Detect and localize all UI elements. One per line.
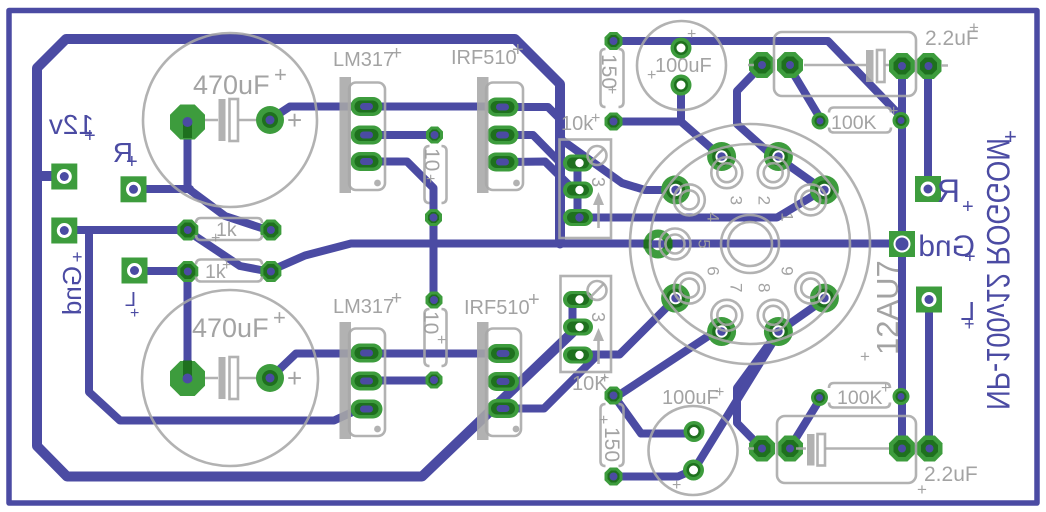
svg-text:+: + [426, 171, 435, 188]
pad 470uF C2 negative [256, 364, 284, 392]
svg-text:10k: 10k [561, 113, 594, 135]
pad 100K R8 left [811, 389, 828, 406]
capacitor C1 470uF silkscreen [143, 33, 317, 207]
pad IRF510 Q1 pin3 [487, 153, 519, 172]
svg-text:+: + [1004, 124, 1017, 149]
pad 100K R7 left [812, 113, 829, 130]
tube V1 pin8 ring silkscreen [758, 300, 789, 331]
wire: long right vertical 100K R7 right pad through Gnd to 2.2uF C6 octagon [898, 122, 906, 446]
pad L output [916, 287, 942, 313]
pad 150R R5 top [605, 32, 623, 50]
pad R output [915, 176, 941, 202]
svg-text:3: 3 [588, 312, 608, 322]
pad 10R R4 top [426, 292, 443, 309]
wire: IRF510 Q1 pin2 to trimmer VR1 pin1 [506, 135, 575, 163]
resistor R8 100K silkscreen [829, 380, 890, 409]
svg-text:150: 150 [597, 54, 620, 89]
svg-text:+: + [964, 246, 976, 268]
svg-text:4: 4 [703, 212, 722, 221]
svg-text:+: + [969, 18, 979, 37]
wire: 100K R8 left pad to 2.2uF C6 inner octagon [791, 400, 820, 446]
pad trimmer VR1 pin1 [563, 155, 593, 172]
pad 100uF C4 positive [684, 421, 705, 442]
svg-text:3: 3 [588, 177, 608, 187]
tube V1 pin4 ring silkscreen [674, 184, 705, 215]
wire: right octagon up...down to R output pad [924, 68, 932, 186]
wire: LM317 U1 pin3 to 10R R3 bottom pad [370, 162, 434, 215]
pad trimmer VR2 pin1 [563, 291, 593, 308]
svg-text:7: 7 [726, 283, 745, 292]
LAYER: silkscreen [142, 18, 979, 499]
svg-text:3: 3 [726, 196, 745, 205]
svg-text:6: 6 [703, 266, 722, 275]
wire: L input pad to 1k R2 left pad [140, 267, 184, 275]
svg-text:+: + [715, 384, 724, 401]
trimmer VR2 10K silkscreen [561, 276, 612, 395]
svg-text:+: + [603, 85, 620, 94]
pad 150R R5 bottom [605, 113, 623, 131]
svg-text:+: + [599, 412, 608, 429]
node R output label (mirrored copper text) [937, 173, 974, 218]
resistor R1 1k silkscreen [196, 218, 262, 247]
pad tube V1 pin1 [810, 175, 839, 204]
node Gnd input label (mirrored copper text) [57, 247, 87, 315]
tube V1 pin5 ring silkscreen [660, 229, 691, 260]
pad 1k R2 right [260, 261, 281, 282]
wire: stub from ground loop to +12v pad [37, 171, 56, 181]
wire: LM317 U2 pin2 to 10R R4 bottom pad [370, 377, 431, 385]
pad 1k R2 left [177, 261, 198, 282]
pad LM317 U2 pin1 [351, 344, 383, 363]
pad tube V1 pin6 [661, 284, 690, 313]
pad 2.2uF C6 out octagon [749, 436, 775, 462]
pad 100uF C3 negative [671, 75, 692, 96]
tube V1 value label 12AU7 [860, 260, 905, 366]
wire: 2.2uF C5 octagon vertical to 100K R7 right pad [898, 68, 906, 118]
svg-text:LM317: LM317 [333, 49, 394, 71]
pad tube V1 pin3 [707, 142, 736, 171]
svg-text:+: + [211, 230, 220, 247]
svg-text:100uF: 100uF [662, 387, 719, 409]
svg-text:+: + [528, 289, 540, 311]
svg-text:+: + [287, 363, 302, 393]
wire: junction diagonal to tube V1 pin3 [682, 123, 719, 156]
resistor R6 150 silkscreen [599, 404, 624, 466]
pad trimmer VR2 pin3 [563, 347, 593, 364]
pad L input [122, 258, 148, 284]
wire: 1k R2 left pad down to 470uF C2 octagon [184, 273, 192, 375]
capacitor C3 100uF silkscreen [637, 21, 726, 110]
pad tube V1 pin9 [810, 284, 839, 313]
pad 470uF C1 negative [256, 106, 284, 134]
pad tube V1 pin5 [644, 230, 673, 259]
svg-text:+: + [391, 43, 402, 64]
resistor R3 10 silkscreen [420, 146, 447, 203]
svg-text:NP-100v12 ROGGOM: NP-100v12 ROGGOM [980, 138, 1016, 410]
wire: IRF510 Q1 pin1 over to tube V1 pin4 [506, 107, 672, 190]
tube V1 pin3 ring silkscreen [711, 157, 742, 188]
svg-text:LM317: LM317 [333, 296, 394, 318]
pad 470uF C2 positive [170, 361, 205, 397]
resistor R4 10 silkscreen [419, 309, 447, 366]
wire: IRF510 Q2 pin3 to trimmer VR2 pin3 rail [508, 356, 597, 409]
trimmer VR1 10k silkscreen [560, 110, 612, 238]
wire: 470uF C1 positive octagon down to node A [184, 126, 192, 189]
pad tube V1 pin4 [661, 175, 690, 204]
svg-text:10: 10 [419, 311, 442, 334]
pad trimmer VR1 pin2 [563, 182, 593, 199]
svg-text:100K: 100K [831, 112, 877, 134]
svg-text:5: 5 [695, 239, 714, 248]
svg-text:100K: 100K [837, 387, 883, 409]
node R input label (mirrored copper text) [113, 137, 138, 173]
svg-text:+: + [889, 103, 898, 120]
pad LM317 U2 pin3 [351, 400, 383, 419]
wire: tube V1 pin2 to pin1 [779, 159, 822, 190]
wire: tube V1 pin8 to pin9 [780, 301, 822, 331]
svg-text:+: + [391, 288, 402, 309]
tube V1 pin2 ring silkscreen [758, 157, 789, 188]
svg-text:8: 8 [755, 283, 774, 292]
svg-text:+: + [126, 151, 138, 173]
pad 150R R6 top [605, 387, 623, 405]
pad 10R R3 bottom [425, 209, 442, 226]
svg-text:12AU7: 12AU7 [870, 260, 905, 355]
pad 2.2uF C6 right octagon A [889, 436, 915, 462]
LAYER: copper text [49, 109, 1017, 410]
pad 150R R6 bottom [605, 468, 623, 486]
svg-text:+: + [600, 370, 609, 387]
wire: 2.2uF C5 inner octagon to 100K R7 left pad [790, 68, 820, 118]
pad trimmer VR1 pin3 [563, 209, 593, 226]
svg-text:+: + [512, 39, 524, 61]
svg-text:+: + [881, 380, 890, 397]
pad R input [121, 176, 147, 202]
transistor Q1 IRF510 package silkscreen [451, 39, 524, 193]
pad tube V1 pin2 [764, 142, 793, 171]
pad IRF510 Q2 pin2 [487, 372, 519, 391]
pad 100uF C3 positive [671, 38, 692, 59]
pad 100K R7 right [893, 112, 910, 129]
svg-text:9: 9 [778, 266, 797, 275]
wire: trimmer VR2 pads 1-2 link [569, 301, 577, 326]
wire: tube V1 pin7 down to 150R R6 top pad [618, 331, 717, 396]
svg-text:IRF510: IRF510 [464, 297, 530, 319]
pad tube V1 pin7 [707, 317, 736, 346]
transistor Q2 IRF510 package silkscreen [464, 289, 540, 440]
svg-text:+: + [860, 347, 870, 366]
pad 2.2uF C5 right octagon A [889, 53, 915, 79]
pad IRF510 Q1 pin1 [487, 98, 519, 117]
tube V1 pin6 ring silkscreen [674, 273, 705, 304]
svg-text:R: R [937, 173, 960, 209]
tube V1 pin1 ring silkscreen [795, 184, 826, 215]
capacitor C6 2.2uF silkscreen [748, 416, 978, 499]
pad LM317 U1 pin1 [351, 97, 383, 116]
wire: long mid rail from 1k R2 right pad to Gnd pad right [272, 244, 898, 271]
pad 1k R1 right [260, 220, 281, 241]
svg-text:+: + [130, 305, 139, 322]
wire: 150R R6 top pad to 100uF C4 positive pad [616, 398, 693, 434]
svg-text:+: + [687, 26, 696, 43]
wire: 470uF C2 + pad to LM317 U2 pin1 and IRF510 Q2 pin1 [272, 354, 500, 377]
svg-text:+: + [917, 480, 927, 499]
resistor R7 100K silkscreen [829, 103, 898, 134]
pad 2.2uF C6 in octagon [777, 436, 803, 462]
svg-text:+: + [222, 257, 231, 274]
wire: trimmer VR1 pin3 to tube V1 pin1 [580, 191, 822, 218]
tube socket V1 12AU7 silkscreen [630, 124, 870, 364]
pad LM317 U1 pin2 [351, 126, 383, 145]
wire: 10R R3 bottom pad down to 10R R4 top pad [430, 219, 438, 298]
svg-text:+: + [84, 125, 96, 147]
svg-text:470uF: 470uF [192, 313, 269, 343]
board title NP-100v12 ROGGOM (mirrored copper text) [980, 124, 1017, 410]
op-amp U1 LM317 package silkscreen [333, 43, 402, 193]
tube V1 pin9 ring silkscreen [795, 273, 826, 304]
wire: 1k R1 left pad diagonal to 1k R2 right pad [189, 232, 266, 271]
svg-text:+: + [274, 62, 287, 87]
pad 2.2uF C6 right octagon B [917, 436, 943, 462]
wire: bridge between 2.2uF C5 right octagons [902, 62, 928, 70]
wire: tube V1 pin6 to trimmer VR2 pin3 [580, 300, 674, 355]
LAYER: pads [51, 32, 942, 486]
wire: node A diagonal to 1k R1 right pad [190, 190, 266, 230]
pad 10R R3 top [426, 127, 443, 144]
wire: Gnd pad to 1k R1 left pad [66, 226, 184, 234]
pad +12v input [51, 164, 77, 190]
pad 2.2uF C5 out octagon [749, 52, 775, 78]
wire: 150R R5 bottom pad to junction under 100uF C3 [617, 118, 681, 126]
pad 1k R1 left [177, 220, 198, 241]
pad 470uF C1 positive [170, 105, 205, 140]
pad trimmer VR2 pin2 [563, 319, 593, 336]
svg-text:IRF510: IRF510 [451, 47, 517, 69]
pad LM317 U2 pin2 [351, 372, 383, 391]
svg-text:+: + [287, 105, 302, 135]
pad 2.2uF C5 right octagon B [916, 53, 942, 79]
wire: L output pad down to 2.2uF C6 octagon [925, 302, 933, 446]
wire: tube V1 pin8 down to 100uF C4 negative pad [695, 337, 777, 469]
pad 100K R8 right [893, 388, 910, 405]
wire: junction up to 100uF C3 negative pad [677, 87, 685, 122]
wire: 470uF C1 + pad to LM317 U1 pin1 and IRF510 Q1 pin1 [271, 107, 500, 120]
capacitor C2 470uF silkscreen [142, 290, 318, 466]
svg-text:10: 10 [420, 148, 443, 171]
wire: LM317 U1 pin2 to 10R R3 top pad [370, 131, 432, 139]
svg-text:+: + [672, 477, 681, 494]
svg-text:2.2uF: 2.2uF [924, 463, 978, 486]
svg-text:470uF: 470uF [193, 70, 270, 100]
pad IRF510 Q2 pin1 [487, 344, 519, 363]
node L input label (mirrored copper text) [125, 289, 139, 322]
capacitor C4 100uF silkscreen [649, 384, 738, 495]
svg-text:+: + [273, 305, 286, 330]
svg-text:+: + [437, 332, 446, 349]
tube V1 pin7 ring silkscreen [711, 300, 742, 331]
svg-text:Gnd: Gnd [57, 266, 87, 315]
svg-text:100uF: 100uF [655, 55, 712, 77]
wire: trimmer VR1 wiper bus pads 1-2-3 [574, 165, 582, 216]
node Gnd output label (mirrored copper text) [918, 230, 975, 268]
node +12v label (mirrored copper text) [49, 109, 96, 147]
wire: branch down from Gnd trace at x=89 [89, 231, 365, 421]
pad 10R R4 bottom [426, 372, 443, 389]
pad Gnd output [889, 231, 915, 257]
resistor R2 1k silkscreen [196, 257, 262, 283]
svg-text:+: + [964, 314, 975, 334]
pad tube V1 pin8 [764, 317, 793, 346]
pad 100uF C4 negative [683, 460, 704, 481]
svg-text:1: 1 [778, 212, 797, 221]
wire: 2.2uF C6 outer octagon up to tube V1 pin8 [737, 336, 775, 447]
svg-text:+: + [962, 196, 974, 218]
capacitor C5 2.2uF silkscreen [748, 18, 979, 96]
pad IRF510 Q2 pin3 [487, 399, 519, 418]
wire: thick ground loop (left/top/bottom perimeter trace) [37, 39, 577, 477]
resistor R5 150 silkscreen [597, 49, 624, 107]
wire: IRF510 Q1 pin3 to trimmer VR1 pin2 [508, 162, 574, 191]
pad IRF510 Q1 pin2 [487, 126, 519, 145]
wire: 2.2uF C5 octagon down-left to tube V1 pin2 [737, 67, 775, 158]
svg-text:150: 150 [600, 427, 623, 462]
svg-text:+: + [72, 247, 83, 267]
wire: 150R R5 top pad along top to 100K R7 right pad [617, 41, 901, 118]
svg-text:+: + [591, 110, 600, 127]
node L output label (mirrored copper text) [961, 296, 975, 334]
op-amp U2 LM317 package silkscreen [333, 288, 402, 439]
wire: 150R R6 bottom pad to 100uF C4 negative pad [617, 471, 692, 477]
pad Gnd input [51, 218, 77, 244]
pad 2.2uF C5 in octagon [777, 52, 803, 78]
pad LM317 U1 pin3 [351, 152, 383, 171]
svg-text:2: 2 [755, 196, 774, 205]
svg-text:+: + [647, 67, 656, 84]
wire: bridge between 2.2uF C6 octagons [902, 445, 929, 453]
wire: R input pad to node A junction [140, 185, 190, 193]
